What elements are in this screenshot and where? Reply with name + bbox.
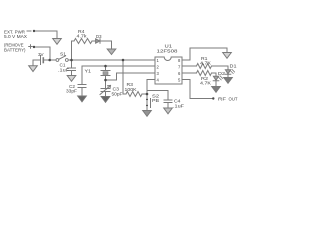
svg-text:RF: RF [218,96,226,101]
svg-text:BATTERY): BATTERY) [4,48,26,53]
svg-text:4.7K: 4.7K [200,81,211,86]
svg-text:4.7K: 4.7K [200,61,211,66]
svg-text:U1: U1 [165,44,173,49]
svg-text:100K: 100K [125,87,137,92]
svg-text:3V: 3V [38,52,44,57]
svg-text:D1: D1 [230,64,238,69]
svg-text:D3: D3 [96,34,102,39]
svg-text:4.7k: 4.7k [77,34,88,39]
svg-text:12F508: 12F508 [157,49,179,54]
svg-text:5.0 V MAX: 5.0 V MAX [4,34,27,39]
svg-text:Y1: Y1 [85,69,92,74]
svg-text:33pF: 33pF [66,89,77,94]
svg-text:D2: D2 [218,71,226,76]
svg-text:50pF: 50pF [112,92,123,97]
svg-text:PB: PB [152,98,159,103]
svg-text:S1: S1 [60,52,67,57]
svg-text:.1uF: .1uF [173,104,184,109]
svg-text:.1uF: .1uF [58,68,69,73]
svg-text:OUT: OUT [229,96,238,101]
